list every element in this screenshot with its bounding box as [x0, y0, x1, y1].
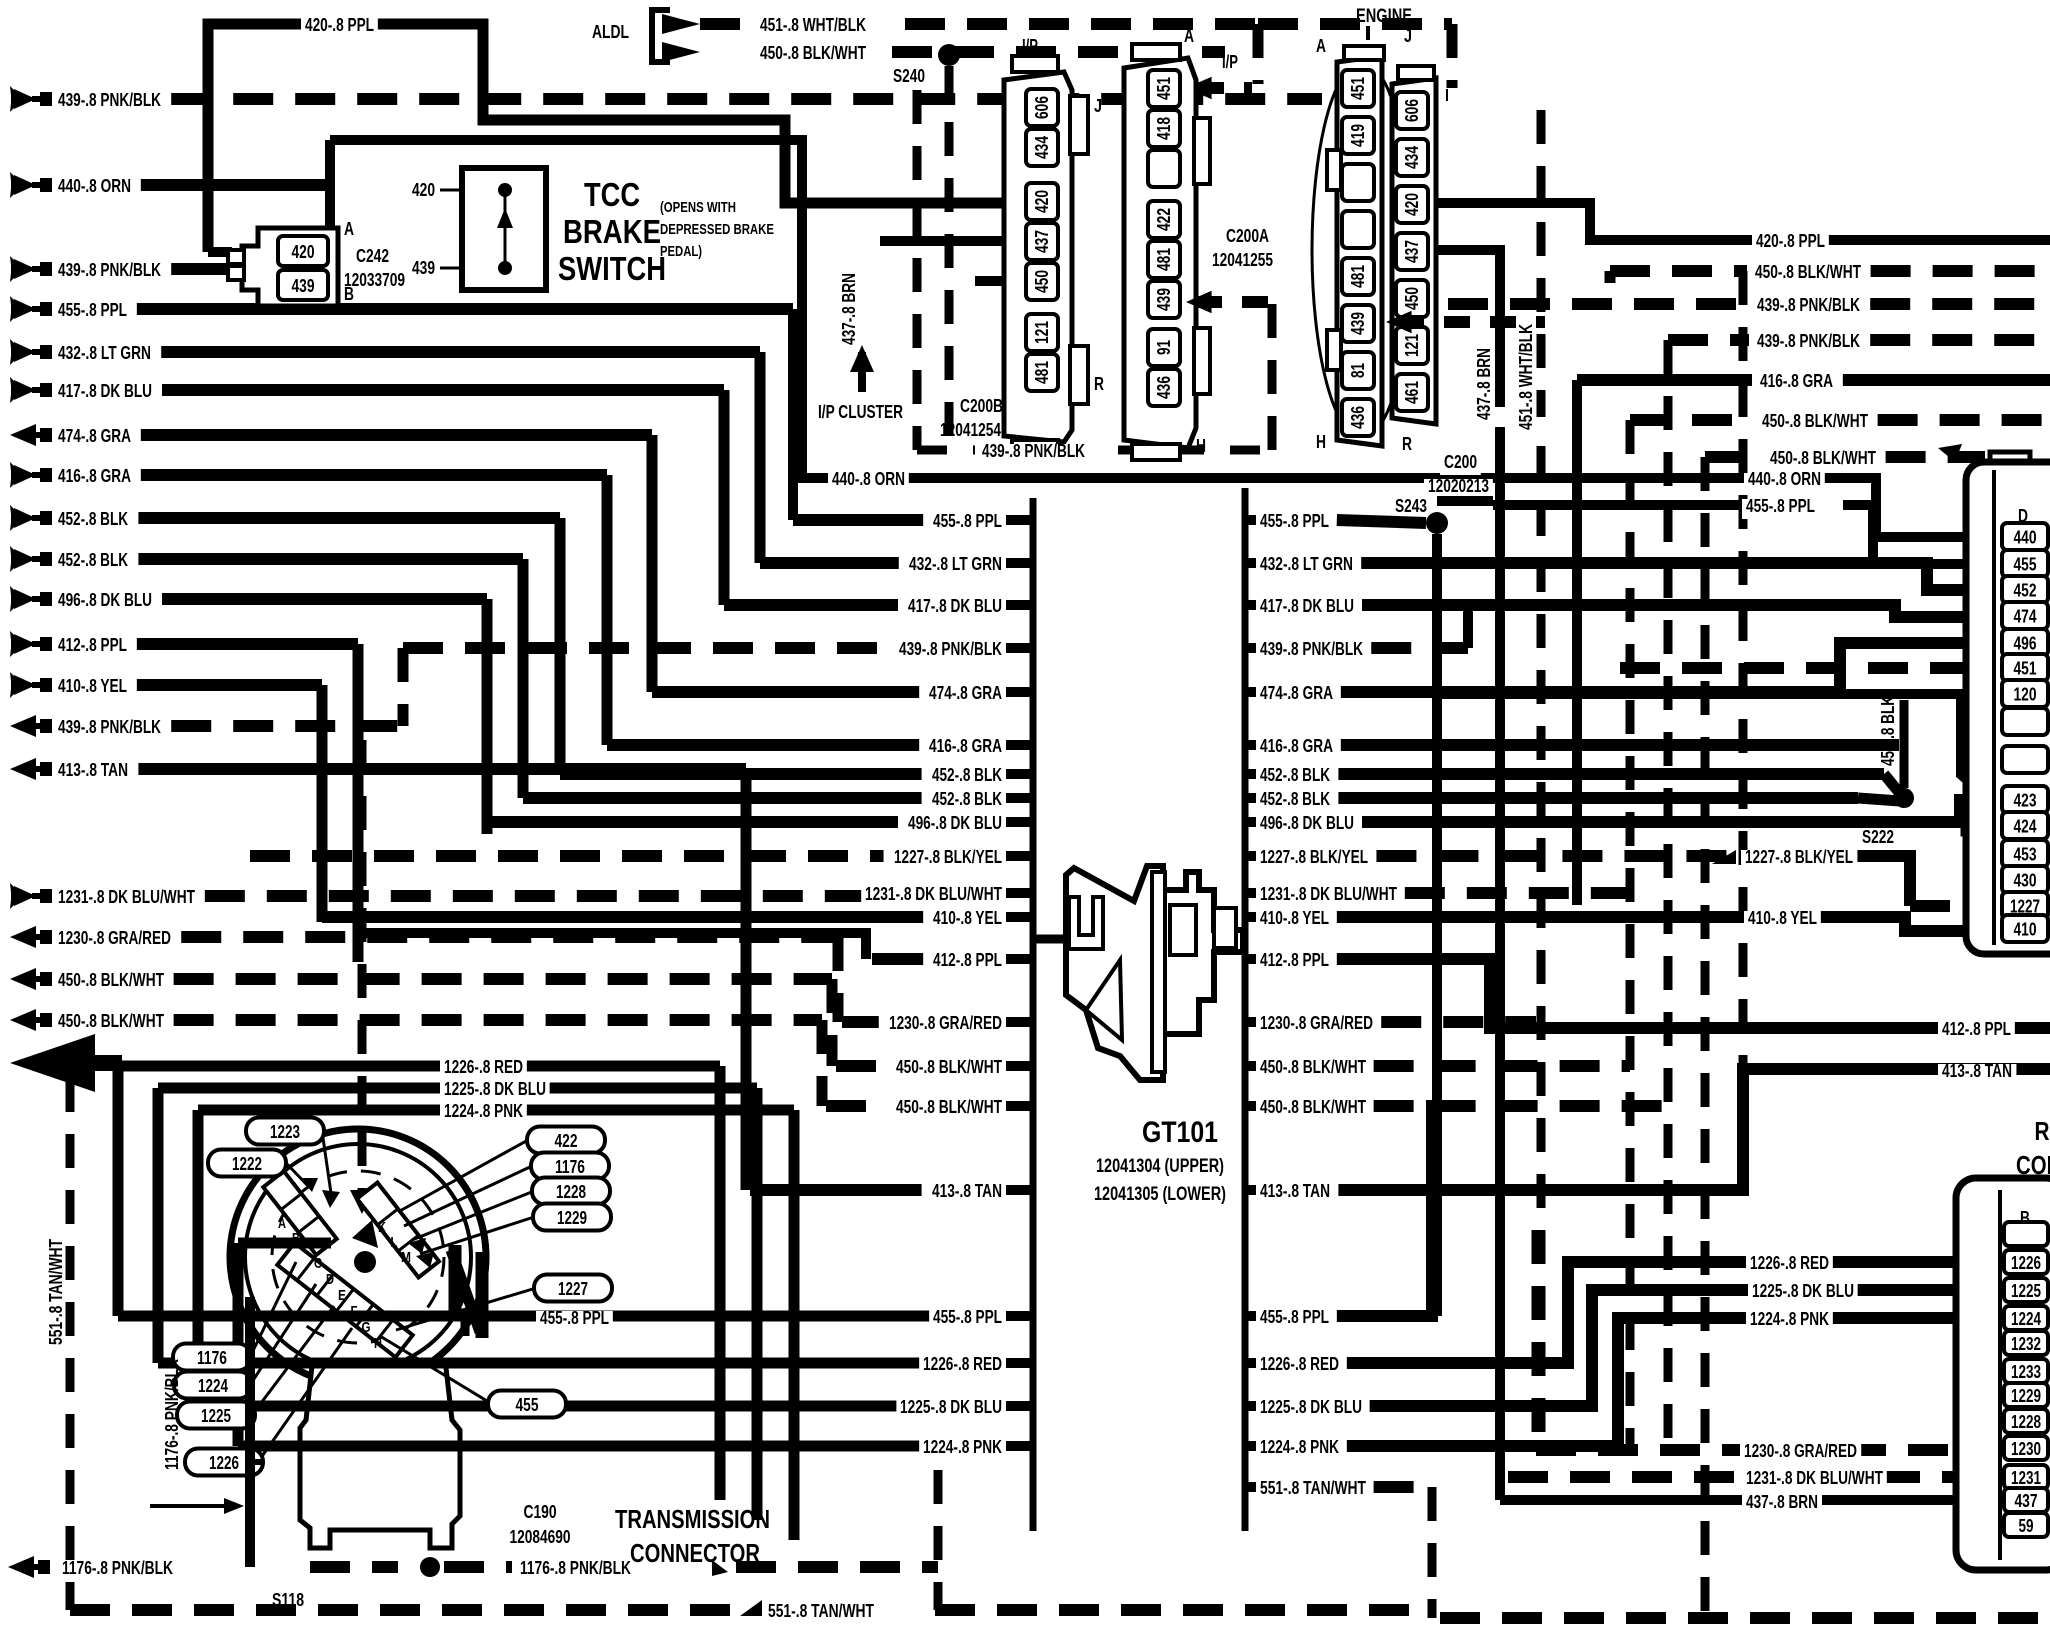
wire	[398, 1140, 528, 1212]
svg-text:I/P: I/P	[1022, 36, 1038, 56]
pin 420	[1396, 186, 1428, 223]
svg-text:450-.8 BLK/WHT: 450-.8 BLK/WHT	[1755, 262, 1861, 282]
wire	[523, 792, 922, 804]
wire 412 PPL label right	[1938, 1022, 2015, 1042]
feed arrow	[10, 172, 14, 198]
wire	[1245, 888, 1256, 898]
pin 436	[1148, 369, 1180, 406]
svg-text:1222: 1222	[232, 1154, 262, 1174]
wire	[198, 1105, 794, 1116]
wire	[1362, 605, 2002, 617]
svg-text:1231-.8 DK BLU/WHT: 1231-.8 DK BLU/WHT	[58, 887, 195, 907]
svg-text:GT101: GT101	[1142, 1116, 1218, 1149]
wire	[1338, 792, 1858, 804]
wire 450-.8 BLK/WHT	[174, 973, 832, 985]
pin 1229	[2004, 1383, 2048, 1407]
wire	[1374, 1481, 1432, 1493]
svg-text:1226-.8 RED: 1226-.8 RED	[1750, 1253, 1829, 1273]
node S240	[938, 44, 960, 66]
wire	[286, 1163, 310, 1188]
svg-text:410: 410	[2014, 920, 2037, 940]
svg-text:474-.8 GRA: 474-.8 GRA	[929, 683, 1002, 703]
svg-text:C242: C242	[356, 246, 389, 266]
feed arrow	[10, 1009, 36, 1031]
pin label 455	[488, 1391, 566, 1418]
connector B	[1956, 1178, 2050, 1570]
svg-text:455-.8 PPL: 455-.8 PPL	[1260, 1307, 1329, 1327]
wire	[1437, 496, 1493, 506]
feed arrow	[10, 926, 36, 948]
wire	[1030, 498, 1037, 1531]
wire 452-.8 BLK	[138, 512, 560, 524]
wire	[1006, 817, 1033, 827]
wire	[560, 768, 922, 780]
svg-text:451: 451	[2014, 659, 2037, 679]
svg-text:439: 439	[1348, 312, 1368, 335]
wire	[1341, 643, 2002, 692]
wire	[353, 644, 364, 962]
svg-text:455-.8 PPL: 455-.8 PPL	[540, 1308, 609, 1328]
svg-text:416-.8 GRA: 416-.8 GRA	[929, 736, 1002, 756]
feed arrow	[10, 86, 14, 112]
svg-text:440-.8 ORN: 440-.8 ORN	[58, 176, 131, 196]
svg-text:M: M	[401, 1249, 411, 1266]
feed arrow	[10, 586, 14, 612]
pin blank	[1342, 211, 1374, 248]
pin 453	[2002, 840, 2048, 867]
svg-text:422: 422	[555, 1131, 578, 1151]
wire	[487, 816, 898, 828]
svg-text:I/P: I/P	[1222, 52, 1238, 72]
wire	[158, 1358, 1006, 1369]
pin 436	[1342, 399, 1374, 436]
svg-text:1225-.8 DK BLU: 1225-.8 DK BLU	[1752, 1281, 1854, 1301]
wire	[760, 557, 899, 569]
wire	[647, 435, 658, 692]
pin 424	[2002, 812, 2048, 839]
pin 121	[1396, 327, 1428, 364]
pin 422	[1148, 201, 1180, 238]
wire	[1245, 912, 1256, 922]
wire	[1878, 414, 2050, 426]
pin 81	[1342, 352, 1374, 389]
svg-text:81: 81	[1348, 363, 1368, 378]
svg-text:455-.8 PPL: 455-.8 PPL	[933, 1307, 1002, 1327]
svg-text:452: 452	[2014, 581, 2037, 601]
svg-text:I/P CLUSTER: I/P CLUSTER	[818, 402, 903, 422]
wire	[1870, 298, 2050, 310]
svg-text:450-.8 BLK/WHT: 450-.8 BLK/WHT	[1260, 1057, 1366, 1077]
pin 452	[2002, 576, 2048, 603]
connector C190 circle	[230, 1129, 486, 1385]
pin label 1227	[534, 1275, 612, 1302]
svg-text:1225: 1225	[201, 1406, 231, 1426]
svg-text:412-.8 PPL: 412-.8 PPL	[1942, 1019, 2011, 1039]
svg-text:452-.8 BLK: 452-.8 BLK	[58, 509, 128, 529]
wire	[113, 1066, 124, 1316]
pin 606	[1396, 92, 1428, 129]
svg-text:1226-.8 RED: 1226-.8 RED	[1260, 1354, 1339, 1374]
pin 410	[2002, 915, 2048, 942]
wire 452-.8 BLK	[138, 553, 523, 565]
svg-text:C: C	[314, 1255, 322, 1272]
svg-text:437-.8 BRN: 437-.8 BRN	[1474, 348, 1494, 420]
wire	[1245, 851, 1256, 861]
svg-text:12041255: 12041255	[1212, 250, 1273, 270]
svg-text:450-.8 BLK/WHT: 450-.8 BLK/WHT	[1762, 411, 1868, 431]
wire	[836, 1060, 886, 1072]
svg-text:12041305 (LOWER): 12041305 (LOWER)	[1094, 1184, 1226, 1205]
labels near B	[1746, 1256, 1833, 1276]
connector C242	[242, 228, 338, 306]
wire	[789, 1110, 800, 1540]
wire	[440, 267, 462, 270]
wire	[1381, 1016, 1536, 1028]
wire	[1245, 1061, 1256, 1071]
pin 461	[1396, 374, 1428, 411]
wire	[1992, 470, 1996, 945]
wire 451 WHT/BLK	[905, 18, 1258, 30]
svg-text:439-.8 PNK/BLK: 439-.8 PNK/BLK	[58, 260, 161, 280]
wire 496-.8 DK BLU	[162, 593, 487, 605]
wire	[118, 1061, 720, 1072]
pin 1230	[2004, 1436, 2048, 1460]
svg-text:455-.8 PPL: 455-.8 PPL	[1260, 511, 1329, 531]
wire	[1376, 850, 1845, 862]
wire	[602, 475, 613, 745]
svg-text:440: 440	[2014, 528, 2037, 548]
wire 439-.8 PNK/BLK	[1448, 298, 1749, 310]
pin 481	[1342, 258, 1374, 295]
wire 417-.8 DK BLU	[162, 384, 724, 396]
svg-text:1225-.8 DK BLU: 1225-.8 DK BLU	[1260, 1397, 1362, 1417]
svg-text:1227-.8 BLK/YEL: 1227-.8 BLK/YEL	[894, 847, 1002, 867]
pin blank	[1148, 150, 1180, 187]
svg-text:S240: S240	[893, 66, 925, 86]
wire 413-.8 TAN	[138, 763, 746, 775]
svg-text:496-.8 DK BLU: 496-.8 DK BLU	[58, 590, 152, 610]
svg-text:S222: S222	[1862, 827, 1894, 847]
wire	[1432, 534, 1442, 1316]
wire	[358, 740, 367, 1196]
wire	[934, 1470, 943, 1610]
pin 1232	[2004, 1331, 2048, 1355]
svg-text:1225-.8 DK BLU: 1225-.8 DK BLU	[444, 1079, 546, 1099]
wire	[1500, 1495, 2002, 1505]
wire	[198, 1401, 1006, 1412]
wire	[1006, 740, 1033, 750]
svg-text:417-.8 DK BLU: 417-.8 DK BLU	[908, 596, 1002, 616]
svg-text:1229: 1229	[2011, 1386, 2041, 1406]
svg-text:A: A	[344, 219, 354, 239]
svg-text:D: D	[326, 1271, 334, 1288]
svg-text:1224-.8 PNK: 1224-.8 PNK	[1260, 1437, 1339, 1457]
svg-text:1226-.8 RED: 1226-.8 RED	[444, 1057, 523, 1077]
wire	[1245, 817, 1256, 827]
wire	[250, 1262, 296, 1357]
wire	[750, 1184, 922, 1196]
svg-text:450-.8 BLK/WHT: 450-.8 BLK/WHT	[760, 43, 866, 63]
wire	[208, 247, 232, 257]
wire	[1398, 316, 1545, 328]
feed arrow	[10, 424, 36, 446]
wire	[1245, 1185, 1256, 1195]
svg-text:E: E	[338, 1287, 346, 1304]
wire	[1337, 917, 2002, 931]
wire	[555, 518, 566, 774]
wire	[1508, 1471, 2002, 1483]
svg-text:453: 453	[2014, 845, 2037, 865]
pin 440	[2002, 523, 2048, 550]
spoke AB	[263, 1171, 336, 1255]
wire	[1006, 643, 1033, 653]
wire	[1362, 800, 2002, 822]
wire	[317, 685, 328, 922]
svg-text:420-.8 PPL: 420-.8 PPL	[305, 15, 374, 35]
wire	[1196, 296, 1270, 308]
wire	[238, 1441, 1006, 1452]
svg-text:451: 451	[1348, 77, 1368, 100]
svg-text:434: 434	[1032, 136, 1052, 159]
pin label 1229	[533, 1204, 611, 1231]
wire	[1006, 793, 1033, 803]
wire	[208, 24, 1025, 252]
svg-text:1227: 1227	[558, 1279, 588, 1299]
wire	[827, 979, 838, 1066]
svg-text:439-.8 PNK/BLK: 439-.8 PNK/BLK	[1260, 639, 1363, 659]
svg-text:455: 455	[2014, 555, 2037, 575]
svg-text:437-.8 BRN: 437-.8 BRN	[839, 273, 859, 345]
svg-text:417-.8 DK BLU: 417-.8 DK BLU	[1260, 596, 1354, 616]
svg-text:452-.8 BLK: 452-.8 BLK	[1878, 696, 1898, 766]
wire	[1871, 265, 2050, 277]
wire	[250, 1382, 252, 1388]
svg-text:452-.8 BLK: 452-.8 BLK	[932, 765, 1002, 785]
pin 481	[1026, 354, 1058, 391]
wire	[858, 352, 866, 392]
svg-text:496-.8 DK BLU: 496-.8 DK BLU	[1260, 813, 1354, 833]
wire	[449, 1245, 462, 1312]
pin 451	[1148, 70, 1180, 107]
svg-text:432-.8 LT GRN: 432-.8 LT GRN	[58, 343, 151, 363]
wire 439-.8 PNK/BLK	[171, 720, 403, 732]
svg-text:1176: 1176	[555, 1157, 585, 1177]
wire	[504, 196, 507, 262]
pin label 1225	[177, 1402, 255, 1429]
svg-text:416-.8 GRA: 416-.8 GRA	[58, 466, 131, 486]
wire	[1436, 203, 2050, 240]
wire	[322, 1131, 332, 1200]
wire	[482, 599, 493, 822]
svg-text:1223: 1223	[270, 1122, 300, 1142]
wire	[250, 1459, 263, 1465]
wire	[1370, 1290, 2002, 1406]
pin 606	[1026, 89, 1058, 126]
svg-text:1227-.8 BLK/YEL: 1227-.8 BLK/YEL	[1745, 847, 1853, 867]
svg-text:424: 424	[2014, 817, 2037, 837]
svg-text:423: 423	[2014, 791, 2037, 811]
wire	[1447, 24, 1458, 88]
svg-text:G: G	[362, 1319, 371, 1336]
svg-text:SWITCH: SWITCH	[558, 250, 666, 287]
svg-text:A: A	[1184, 26, 1194, 46]
svg-text:439: 439	[1154, 288, 1174, 311]
svg-text:1176-.8 PNK/BLK: 1176-.8 PNK/BLK	[520, 1558, 631, 1578]
wire	[741, 769, 752, 1190]
svg-text:12041254: 12041254	[940, 420, 1001, 440]
wire	[917, 446, 975, 455]
wire	[1006, 1358, 1033, 1368]
pin 496	[2002, 629, 2048, 656]
svg-text:1226-.8 RED: 1226-.8 RED	[923, 1354, 1002, 1374]
svg-text:430: 430	[2014, 871, 2037, 891]
wire	[1428, 1487, 1437, 1618]
svg-text:120: 120	[2014, 685, 2037, 705]
wire	[1493, 500, 1740, 510]
wire	[153, 1088, 164, 1363]
wire	[1006, 600, 1033, 610]
wire	[1245, 793, 1256, 803]
svg-text:451-.8 WHT/BLK: 451-.8 WHT/BLK	[760, 15, 866, 35]
node S222	[1884, 774, 1902, 796]
pin label 1222	[208, 1150, 286, 1177]
wire 450-.8 BLK/WHT	[174, 1014, 822, 1026]
wire 412-.8 PPL	[137, 638, 358, 650]
feed arrow	[10, 546, 14, 572]
wire	[1739, 271, 1748, 1067]
pin 437	[2004, 1488, 2048, 1512]
svg-text:420-.8 PPL: 420-.8 PPL	[1756, 231, 1825, 251]
wire	[793, 514, 923, 526]
wire	[412, 1191, 534, 1240]
svg-text:1224: 1224	[2011, 1309, 2041, 1329]
svg-text:551-.8 TAN/WHT: 551-.8 TAN/WHT	[46, 1239, 66, 1345]
pin 1227	[2002, 892, 2048, 919]
wire	[1245, 769, 1256, 779]
wire	[1245, 1401, 1256, 1411]
svg-text:1231-.8 DK BLU/WHT: 1231-.8 DK BLU/WHT	[1260, 884, 1397, 904]
svg-text:439-.8 PNK/BLK: 439-.8 PNK/BLK	[58, 90, 161, 110]
feed arrow	[8, 1556, 34, 1578]
wire	[1245, 515, 1256, 525]
svg-text:455-.8 PPL: 455-.8 PPL	[1746, 496, 1815, 516]
pin 91	[1148, 329, 1180, 366]
wire	[476, 1252, 489, 1338]
wire 455-.8 PPL	[137, 303, 793, 315]
feed arrow	[10, 672, 14, 698]
wire	[1245, 600, 1256, 610]
svg-text:1232: 1232	[2011, 1334, 2041, 1354]
svg-text:436: 436	[1348, 406, 1368, 429]
wire	[724, 599, 898, 611]
svg-text:455-.8 PPL: 455-.8 PPL	[58, 300, 127, 320]
wire	[607, 739, 919, 751]
pin 450	[1396, 280, 1428, 317]
svg-text:DEPRESSED BRAKE: DEPRESSED BRAKE	[660, 221, 774, 238]
pin blank	[2002, 746, 2048, 773]
pin label 1228	[532, 1178, 610, 1205]
label 455 on loop	[536, 1311, 613, 1331]
svg-text:91: 91	[1154, 340, 1174, 355]
svg-text:CONNECTOR: CONNECTOR	[630, 1538, 760, 1568]
wire	[1374, 1060, 1630, 1072]
wire	[1347, 1262, 2002, 1363]
pin 120	[2002, 680, 2048, 707]
wire 1230-.8 GRA/RED	[181, 931, 838, 943]
wire	[461, 1318, 470, 1345]
wire	[322, 911, 923, 923]
svg-text:450: 450	[1402, 287, 1422, 310]
wire	[518, 559, 529, 798]
pin 121	[1026, 314, 1058, 351]
wire	[1006, 1101, 1033, 1111]
wire	[1258, 18, 1452, 30]
svg-text:439-.8 PNK/BLK: 439-.8 PNK/BLK	[1757, 331, 1860, 351]
wire	[158, 1083, 757, 1094]
feed arrow	[10, 339, 14, 365]
wire	[1245, 1311, 1256, 1321]
wire	[1338, 1069, 2050, 1190]
svg-text:452-.8 BLK: 452-.8 BLK	[932, 789, 1002, 809]
wire	[1243, 937, 1245, 946]
svg-text:481: 481	[1154, 248, 1174, 271]
svg-text:121: 121	[1402, 334, 1422, 357]
svg-text:420: 420	[292, 242, 315, 262]
pin label 1223	[246, 1118, 324, 1145]
svg-text:412-.8 PPL: 412-.8 PPL	[58, 635, 127, 655]
svg-text:1229: 1229	[557, 1208, 587, 1228]
svg-text:437: 437	[2015, 1491, 2038, 1511]
svg-text:K: K	[378, 1219, 386, 1236]
svg-text:ALDL: ALDL	[592, 22, 629, 42]
wire	[440, 189, 462, 192]
wire	[736, 1561, 938, 1573]
wire	[913, 90, 922, 450]
wire	[1440, 1612, 2050, 1624]
wire	[1361, 563, 2002, 590]
spoke KLM	[357, 1183, 439, 1278]
wire	[1245, 1017, 1256, 1027]
node S243	[1426, 512, 1448, 534]
svg-text:420: 420	[412, 180, 435, 200]
svg-text:1228: 1228	[556, 1182, 586, 1202]
svg-text:ENGINE: ENGINE	[1356, 6, 1412, 27]
svg-text:439: 439	[292, 276, 315, 296]
svg-text:R: R	[1402, 434, 1412, 454]
wire S240 drop	[945, 66, 954, 450]
pin 451	[2002, 654, 2048, 681]
wire	[482, 599, 493, 834]
wire	[1242, 488, 1249, 1531]
svg-text:450-.8 BLK/WHT: 450-.8 BLK/WHT	[1260, 1097, 1366, 1117]
svg-text:450-.8 BLK/WHT: 450-.8 BLK/WHT	[896, 1097, 1002, 1117]
wire	[652, 686, 919, 698]
svg-text:440-.8 ORN: 440-.8 ORN	[832, 469, 905, 489]
svg-text:1230: 1230	[2011, 1439, 2041, 1459]
pin 437	[1026, 223, 1058, 260]
pin 1226	[2004, 1250, 2048, 1274]
pin label 1226	[185, 1449, 263, 1476]
wire	[1006, 1441, 1033, 1451]
wire	[1006, 687, 1033, 697]
svg-text:419: 419	[1348, 124, 1368, 147]
svg-text:420: 420	[1032, 190, 1052, 213]
wire	[1198, 82, 1252, 94]
svg-text:1230-.8 GRA/RED: 1230-.8 GRA/RED	[1260, 1013, 1373, 1033]
pin label 1176	[173, 1344, 251, 1371]
spoke CDEFGH	[277, 1243, 412, 1357]
pin 418	[1148, 110, 1180, 147]
